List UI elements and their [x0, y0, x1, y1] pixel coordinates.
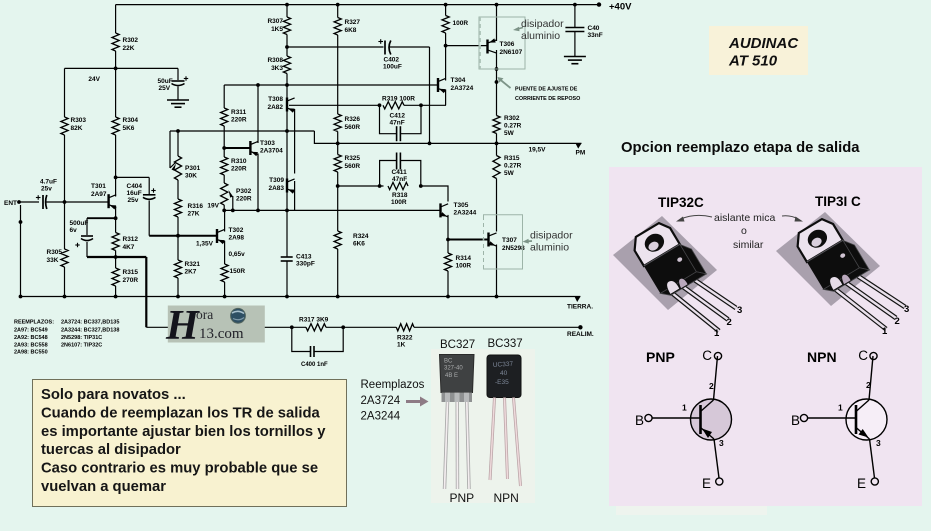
resistor R313 150R	[221, 264, 228, 282]
svg-text:500uF: 500uF	[70, 220, 89, 227]
svg-text:Reemplazos: Reemplazos	[361, 379, 425, 391]
resistor R302	[112, 33, 119, 51]
resistor R324 6K6	[334, 231, 341, 249]
svg-text:E: E	[857, 476, 866, 491]
terminal B	[800, 414, 807, 421]
wire y47 to C402	[287, 46, 384, 48]
svg-text:R316: R316	[188, 203, 204, 210]
svg-text:220R: 220R	[236, 196, 252, 203]
wire base bus y85	[224, 84, 438, 86]
wire 24V horizontal	[65, 67, 179, 69]
svg-text:R302: R302	[504, 115, 520, 122]
svg-text:1: 1	[838, 403, 843, 413]
svg-text:B: B	[791, 413, 800, 428]
wire R310 to P302	[223, 175, 225, 183]
wire R312 to feedback node	[115, 251, 117, 269]
svg-text:R326: R326	[345, 116, 361, 123]
capacitor C400 1nF loop	[290, 325, 294, 329]
node ENT	[17, 200, 21, 204]
wire R311 to T303 base node	[223, 126, 225, 157]
svg-text:R307: R307	[267, 18, 283, 25]
wire R316 to T302 base node	[177, 217, 179, 260]
box AUDINAC AT 510	[709, 26, 808, 75]
photo BC327 TO-92 body	[440, 355, 475, 393]
svg-text:5K6: 5K6	[123, 125, 135, 132]
svg-text:2A3724: 2A3724	[451, 85, 474, 92]
wire y186 bus	[338, 185, 384, 187]
svg-text:3: 3	[737, 305, 742, 316]
svg-text:2A97: BC549: 2A97: BC549	[14, 327, 48, 333]
svg-text:B: B	[635, 413, 644, 428]
svg-text:1K5: 1K5	[271, 26, 283, 33]
wire T308 emitter to T309	[294, 109, 296, 174]
capacitor 4.7uF input	[42, 195, 44, 209]
svg-text:R327: R327	[345, 19, 361, 26]
svg-text:PM: PM	[576, 150, 586, 157]
svg-text:ENT: ENT	[4, 200, 17, 207]
svg-text:C402: C402	[384, 57, 400, 64]
svg-text:R302: R302	[123, 37, 139, 44]
wire R303 branch	[64, 68, 66, 117]
svg-text:R324: R324	[353, 233, 369, 240]
svg-text:22K: 22K	[123, 45, 135, 52]
wire C404 bottom to T302 base	[148, 201, 150, 236]
svg-text:2A97: 2A97	[91, 191, 107, 198]
wire T307 base	[448, 239, 489, 241]
svg-text:3: 3	[876, 438, 881, 448]
transistor T307 2N5298	[487, 233, 489, 247]
wire R302b to PM node	[496, 134, 498, 156]
wire C402 right down	[389, 46, 430, 48]
wire 500uF top	[87, 217, 116, 219]
svg-text:2A98: BC550: 2A98: BC550	[14, 350, 48, 356]
svg-text:TIP3I C: TIP3I C	[815, 194, 861, 209]
capacitor 50uF 25V	[177, 68, 179, 80]
wire R303 to input node	[64, 135, 66, 202]
resistor R311 220R	[223, 85, 225, 108]
svg-text:C: C	[858, 348, 868, 363]
resistor R318 100R	[388, 182, 408, 189]
transistor circle NPN	[846, 399, 887, 440]
svg-text:2A3244: 2A3244	[454, 210, 477, 217]
wire bias bus y131	[170, 130, 314, 132]
svg-text:25v: 25v	[128, 197, 139, 204]
svg-text:R305: R305	[47, 249, 63, 256]
svg-text:2N5298: 2N5298	[502, 245, 525, 252]
svg-text:33K: 33K	[47, 257, 59, 264]
resistor R317 3K9	[306, 324, 326, 331]
svg-text:33nF: 33nF	[588, 32, 603, 39]
svg-text:P301: P301	[185, 165, 201, 172]
resistor R308 3K3	[283, 56, 290, 74]
svg-text:aluminio: aluminio	[521, 30, 560, 42]
svg-text:T305: T305	[454, 202, 469, 209]
wire T309 collector	[294, 181, 296, 210]
wire input shield down	[20, 205, 22, 297]
transistor T303 2A3704	[224, 147, 250, 149]
resistor R305	[64, 202, 66, 249]
svg-text:2A3244: 2A3244	[361, 411, 401, 423]
wire R327 to R326	[337, 35, 339, 114]
package tab and body	[629, 216, 706, 300]
terminal B	[645, 414, 652, 421]
resistor R315 270R	[112, 268, 119, 286]
svg-text:2: 2	[866, 380, 871, 390]
svg-text:25v: 25v	[41, 186, 52, 193]
wire R319 right	[404, 104, 421, 106]
svg-text:aislante mica: aislante mica	[714, 212, 775, 224]
mica washer	[776, 212, 880, 306]
svg-text:R325: R325	[345, 155, 361, 162]
resistor R320 100R	[442, 16, 449, 34]
svg-text:PUENTE DE AJUSTE DE: PUENTE DE AJUSTE DE	[515, 87, 578, 93]
svg-text:similar: similar	[733, 239, 764, 251]
svg-text:27K: 27K	[188, 211, 200, 218]
svg-text:es importante ajustar bien los: es importante ajustar bien los tornillos…	[41, 424, 326, 440]
svg-text:R311: R311	[231, 109, 247, 116]
wire T303 collector up	[257, 85, 259, 143]
wire feedback heavy	[87, 256, 146, 258]
svg-text:H: H	[165, 303, 200, 349]
svg-text:220R: 220R	[231, 166, 247, 173]
svg-text:P302: P302	[236, 188, 252, 195]
wire R326 to PM bus	[337, 132, 339, 155]
capacitor C412 47nF loop	[380, 105, 397, 133]
svg-text:UC337: UC337	[493, 361, 514, 369]
watermark globe icon	[231, 308, 246, 323]
resistor R322 1K	[396, 324, 414, 331]
pink panel background (etapa de salida)	[609, 167, 922, 506]
svg-text:2N5298: TIP31C: 2N5298: TIP31C	[61, 335, 102, 341]
svg-text:ora: ora	[196, 307, 213, 322]
heatsink box T306	[479, 17, 525, 69]
svg-text:2A3704: 2A3704	[260, 148, 283, 155]
svg-text:82K: 82K	[71, 125, 83, 132]
svg-text:R318: R318	[392, 192, 408, 199]
svg-text:3K3: 3K3	[271, 65, 283, 72]
svg-text:100R: 100R	[453, 20, 469, 27]
svg-text:R322: R322	[397, 335, 413, 342]
transistor T305 2A3244	[439, 203, 441, 217]
svg-text:2A82: 2A82	[267, 104, 283, 111]
package tab and body	[792, 212, 869, 296]
wire T303 emitter down	[257, 154, 259, 211]
svg-text:1: 1	[714, 328, 720, 339]
svg-text:6K6: 6K6	[353, 241, 365, 248]
transistor T302 2A98	[216, 229, 218, 243]
wire R318 to T305 collector	[421, 186, 448, 202]
wire C401 to T301 base	[46, 201, 109, 203]
ground C40	[564, 56, 586, 58]
wire bias bus jog	[314, 131, 581, 143]
svg-text:5W: 5W	[504, 170, 515, 177]
photo background	[431, 349, 535, 503]
wire T302 emitter	[224, 241, 226, 264]
svg-text:2A93: BC558: 2A93: BC558	[14, 343, 48, 349]
resistor R319 100R	[383, 102, 404, 109]
arrow aislante left	[681, 215, 712, 219]
capacitor C404 16uF	[143, 194, 156, 196]
package legs	[835, 289, 886, 329]
wire base y105 bus	[289, 104, 380, 106]
resistor R304	[112, 117, 119, 135]
wire top +40V rail	[116, 4, 599, 6]
wire T301 emitter down	[115, 206, 117, 218]
svg-text:4.7uF: 4.7uF	[40, 179, 57, 186]
svg-text:2: 2	[895, 316, 900, 327]
wire R307 top	[285, 3, 289, 7]
wire P301 to R316	[177, 180, 179, 199]
svg-text:2A83: 2A83	[268, 185, 284, 192]
svg-text:25V: 25V	[159, 85, 171, 92]
svg-text:100R: 100R	[391, 199, 407, 206]
svg-text:T302: T302	[229, 227, 244, 234]
transistor T306 2N6107	[486, 40, 488, 54]
svg-text:T306: T306	[500, 41, 515, 48]
svg-text:R303: R303	[71, 117, 87, 124]
wire 500uF bottom	[86, 242, 88, 257]
transistor T309 2A83	[286, 179, 288, 193]
wire left supply vertical x115	[115, 5, 117, 33]
package legs	[672, 293, 719, 331]
svg-text:4B E: 4B E	[445, 373, 458, 379]
resistor R321 2K7	[174, 260, 181, 278]
capacitor C413 330pF	[281, 256, 293, 258]
wire R308 to T308	[286, 74, 288, 132]
svg-text:C400 1nF: C400 1nF	[301, 362, 328, 368]
wire T309 base	[286, 131, 288, 210]
svg-text:T304: T304	[451, 77, 466, 84]
wire T307 emitter to rail	[496, 245, 498, 297]
svg-text:R319 100R: R319 100R	[382, 96, 415, 103]
wire R324 connections	[337, 186, 339, 231]
ground of 50uF	[167, 99, 189, 101]
svg-text:220R: 220R	[231, 117, 247, 124]
wire T304 collector	[445, 33, 447, 81]
svg-text:T308: T308	[268, 96, 283, 103]
svg-text:T303: T303	[260, 140, 275, 147]
svg-text:T301: T301	[91, 183, 106, 190]
svg-text:R321: R321	[185, 261, 201, 268]
wire ENT to C401	[19, 201, 39, 203]
svg-text:R315: R315	[123, 269, 139, 276]
capacitor C402 100uF	[384, 41, 386, 55]
svg-text:19,5V: 19,5V	[529, 147, 547, 154]
resistor R307 1K5	[283, 17, 290, 35]
resistor R312	[112, 233, 119, 251]
svg-text:R314: R314	[456, 255, 472, 262]
svg-text:REALIM.: REALIM.	[567, 331, 594, 338]
svg-text:PNP: PNP	[450, 491, 475, 505]
node R327 top	[336, 3, 340, 7]
node 24V	[114, 67, 118, 71]
svg-text:1,35V: 1,35V	[196, 241, 214, 248]
svg-text:E: E	[702, 476, 711, 491]
svg-text:2N6107: TIP32C: 2N6107: TIP32C	[61, 343, 102, 349]
svg-text:100R: 100R	[456, 263, 472, 270]
wire REALIM right	[414, 326, 580, 328]
svg-text:270R: 270R	[123, 277, 139, 284]
svg-text:R312: R312	[123, 236, 139, 243]
wire T305 emitter	[447, 215, 449, 253]
terminal E	[871, 478, 878, 485]
svg-text:1: 1	[682, 403, 687, 413]
node bias bus x287	[285, 129, 289, 133]
svg-text:3: 3	[904, 304, 909, 315]
svg-text:C413: C413	[296, 254, 312, 261]
watermark Hora13.com	[168, 306, 265, 343]
svg-text:disipador: disipador	[530, 230, 573, 242]
svg-text:C412: C412	[390, 113, 406, 120]
svg-text:Cuando de reemplazan los TR de: Cuando de reemplazan los TR de salida	[41, 405, 321, 421]
svg-text:C40: C40	[588, 25, 600, 32]
svg-text:6K8: 6K8	[345, 27, 357, 34]
svg-text:T307: T307	[502, 237, 517, 244]
svg-text:REEMPLAZOS:: REEMPLAZOS:	[14, 320, 54, 326]
svg-text:2A3244: BC327,BD138: 2A3244: BC327,BD138	[61, 327, 119, 333]
wire T301 collector to C404	[116, 176, 150, 178]
svg-text:2N6107: 2N6107	[500, 49, 523, 56]
terminal C	[714, 352, 721, 359]
svg-text:4K7: 4K7	[123, 244, 135, 251]
svg-text:Caso contrario es muy probable: Caso contrario es muy probable que se	[41, 461, 318, 477]
svg-text:24V: 24V	[88, 76, 100, 83]
svg-text:CORRIENTE DE REPOSO: CORRIENTE DE REPOSO	[515, 96, 580, 102]
transistor T304 2A3724	[437, 78, 439, 92]
terminal C	[870, 352, 877, 359]
svg-text:3: 3	[719, 438, 724, 448]
wire 100R top	[444, 3, 448, 7]
arrow reemplazos	[406, 400, 422, 403]
svg-text:2A98: 2A98	[229, 235, 245, 242]
wire REALIM rail	[146, 326, 306, 328]
svg-text:2: 2	[727, 317, 732, 328]
mica washer	[613, 216, 717, 310]
transistor T308 2A82	[286, 98, 288, 112]
svg-text:560R: 560R	[345, 124, 361, 131]
svg-text:NPN: NPN	[807, 349, 837, 365]
resistor R325 560R	[334, 155, 341, 173]
wire R314 to rail	[447, 271, 449, 297]
svg-text:tuercas al disipador: tuercas al disipador	[41, 442, 181, 458]
svg-text:disipador: disipador	[521, 18, 564, 30]
resistor R310 220R	[221, 157, 228, 175]
wire C413 to rail	[286, 210, 288, 257]
pot P301 30K	[177, 131, 179, 156]
svg-text:R317 3K9: R317 3K9	[299, 317, 329, 324]
capacitor C411 47nF loop	[380, 161, 396, 187]
wire 150R to rail	[224, 282, 226, 297]
svg-text:BC: BC	[444, 359, 453, 365]
svg-text:2A3724: BC337,BD135: 2A3724: BC337,BD135	[61, 320, 119, 326]
svg-text:330pF: 330pF	[296, 261, 315, 268]
pot P302 220R	[221, 183, 228, 205]
resistor R316 27K	[174, 199, 181, 217]
wire T306 emitter down	[496, 50, 498, 116]
svg-text:47nF: 47nF	[390, 120, 405, 127]
svg-text:R315: R315	[504, 155, 520, 162]
svg-text:1: 1	[882, 326, 888, 337]
transistor T301 2A97	[107, 194, 109, 208]
svg-text:40: 40	[500, 370, 508, 377]
svg-text:BC337: BC337	[488, 338, 523, 350]
resistor R327 6K8	[334, 18, 341, 36]
wire R321 to rail	[177, 278, 179, 297]
svg-text:16uF: 16uF	[127, 190, 142, 197]
svg-text:R310: R310	[231, 158, 247, 165]
box solo para novatos	[33, 380, 347, 507]
svg-text:30K: 30K	[185, 173, 197, 180]
transistor circle PNP	[691, 399, 732, 440]
resistor R326 560R	[334, 114, 341, 132]
svg-text:AUDINAC: AUDINAC	[728, 35, 799, 52]
svg-text:100uF: 100uF	[383, 64, 402, 71]
svg-text:NPN: NPN	[494, 491, 519, 505]
svg-text:TIERRA.: TIERRA.	[567, 304, 593, 311]
svg-text:TIP32C: TIP32C	[658, 195, 704, 210]
svg-text:13.com: 13.com	[199, 326, 244, 342]
svg-text:19V: 19V	[207, 203, 219, 210]
svg-text:Opcion reemplazo etapa de sali: Opcion reemplazo etapa de salida	[621, 140, 860, 156]
svg-text:vuelvan a quemar: vuelvan a quemar	[41, 479, 166, 495]
svg-text:2: 2	[709, 381, 714, 391]
terminal E	[716, 478, 723, 485]
wire T306 collector to rail	[495, 3, 499, 7]
svg-text:C411: C411	[392, 169, 408, 176]
wire T302 collector	[224, 210, 226, 231]
wire P302 to 19V rail	[223, 205, 225, 210]
svg-text:R304: R304	[123, 117, 139, 124]
svg-text:C404: C404	[127, 183, 143, 190]
resistor R303	[61, 117, 68, 135]
wire R302 to 24V node	[115, 51, 117, 117]
wire bias bus left corner	[169, 131, 171, 168]
svg-text:T309: T309	[269, 177, 284, 184]
svg-text:2A92: BC548: 2A92: BC548	[14, 335, 48, 341]
legs BC337	[490, 398, 495, 481]
wire R315 to ground rail	[115, 286, 117, 297]
svg-text:1K: 1K	[397, 342, 406, 349]
svg-text:+40V: +40V	[609, 2, 632, 13]
svg-text:2A3724: 2A3724	[361, 395, 401, 407]
svg-text:aluminio: aluminio	[530, 242, 569, 254]
svg-text:150R: 150R	[230, 268, 246, 275]
wire R305 to rail	[64, 267, 66, 297]
node T306 base wire	[444, 44, 448, 48]
wire 19V bus	[224, 209, 440, 211]
capacitor C40 33nF	[573, 3, 577, 7]
svg-text:50uF: 50uF	[158, 78, 173, 85]
svg-text:5W: 5W	[504, 130, 515, 137]
capacitor 500uF 6v	[86, 218, 88, 235]
svg-text:R308: R308	[267, 57, 283, 64]
node R307/R308	[285, 45, 289, 49]
svg-text:560R: 560R	[345, 163, 361, 170]
svg-text:47nF: 47nF	[392, 176, 407, 183]
svg-text:6v: 6v	[70, 227, 78, 234]
legs BC327	[445, 402, 448, 489]
wire R315b to T307	[496, 179, 498, 232]
svg-text:0.27R: 0.27R	[504, 163, 522, 170]
resistor R314 100R	[444, 253, 451, 271]
wire T304 emitter	[445, 90, 447, 106]
wire T301 collector	[115, 135, 117, 177]
arrow aislante right	[782, 216, 798, 219]
svg-text:PNP: PNP	[646, 349, 675, 365]
wire REALIM middle	[326, 326, 396, 328]
svg-text:0,65v: 0,65v	[229, 251, 246, 258]
svg-text:o: o	[741, 225, 747, 237]
